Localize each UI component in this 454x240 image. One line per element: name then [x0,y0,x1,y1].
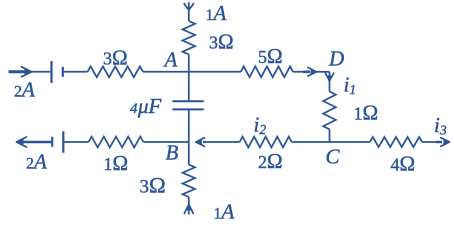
battery cell E1 (top) [52,61,63,83]
resistor 5ohm [241,66,293,77]
wire battery-to-3ohm (top) [63,71,88,73]
wire B-to-2ohm with current arrow i2 [195,138,239,147]
svg-text:1A: 1A [206,1,227,25]
svg-text:3Ω: 3Ω [209,30,234,54]
svg-text:B: B [166,141,179,165]
svg-text:2Ω: 2Ω [258,149,283,173]
current source arrow 1A (top, pointing up) [184,2,193,21]
resistor 1ohm (bottom-left horizontal) [89,137,144,148]
battery cell E2 (bottom) [52,131,63,153]
svg-text:4μF: 4μF [130,94,162,118]
wire A-to-capacitor [188,72,190,102]
wire D-down with current arrow i1 [325,72,333,92]
wire arrow-to-battery (top) [31,71,50,73]
resistor 3ohm (vertical bottom) [183,165,195,197]
svg-text:C: C [326,145,341,169]
svg-text:A: A [163,48,178,72]
current arrow 2A (top-left, pointing right) [9,67,33,77]
svg-text:D: D [328,47,344,71]
svg-text:1Ω: 1Ω [104,151,129,175]
resistor 1ohm (vertical D-C) [323,92,336,130]
current arrow 2A (bottom-left, pointing left) [16,137,51,147]
wire C-to-4ohm [330,141,370,143]
resistor 3ohm (top-left horizontal) [88,66,144,77]
svg-text:2A: 2A [26,150,47,174]
current source arrow 1A (bottom, pointing up) [184,197,193,215]
wire 2ohm-to-C [292,141,330,143]
resistor 2ohm [240,137,292,148]
wire A-to-5ohm [189,71,241,73]
wire 1ohm-to-B [143,141,188,143]
wire 1ohm-to-C [329,129,331,142]
svg-text:1A: 1A [214,200,235,224]
resistor 4ohm [370,137,422,147]
svg-text:4Ω: 4Ω [391,152,416,176]
wire B-down [188,142,190,165]
wire 5ohm-to-D with current arrow [293,68,330,77]
svg-text:i3: i3 [434,113,447,138]
svg-text:i2: i2 [254,113,267,138]
wire battery-to-1ohm (bottom) [64,141,89,143]
wire capacitor-to-B [188,109,190,142]
svg-text:3Ω: 3Ω [140,173,166,198]
wire 3ohm-to-A vertical [188,55,190,72]
svg-text:2A: 2A [14,78,35,102]
capacitor 4uF [172,101,204,109]
resistor 3ohm (vertical top) [183,21,196,55]
svg-text:5Ω: 5Ω [258,44,283,68]
wire 3ohm-to-A [143,71,189,73]
svg-text:3Ω: 3Ω [103,46,128,70]
wire 4ohm-to-edge with current arrow i3 [422,138,450,147]
svg-text:1Ω: 1Ω [354,101,379,125]
svg-text:i1: i1 [344,73,357,98]
